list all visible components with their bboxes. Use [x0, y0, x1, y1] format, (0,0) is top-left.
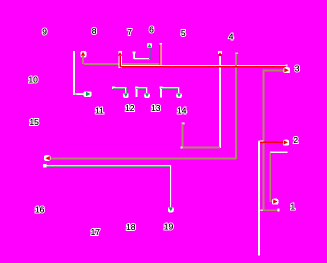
shape Q: staple with green down-arrow (12) [135, 87, 137, 97]
node arrow A1: red up-arrow at x83 on white pad [81, 51, 87, 64]
svg-text:18: 18 [126, 222, 136, 232]
wire O: white/green vertical with green down-arrow [170, 166, 171, 209]
shape P: elbow with green down-arrow (11→) [112, 87, 115, 90]
net B: red horizontal bus (long) [120, 66, 286, 67]
svg-text:1: 1 [290, 202, 295, 212]
svg-text:5: 5 [181, 28, 186, 38]
svg-text:14: 14 [177, 105, 187, 115]
node arrow E1: red up-arrow on white band at x120 [118, 51, 122, 68]
wire L: tan vertical at x236 [235, 53, 237, 159]
wire K: white vertical at x220 with red up-arrow [218, 51, 222, 56]
svg-text:3: 3 [295, 63, 300, 73]
wire T3: tan vertical right rail [262, 69, 264, 210]
net T2: tan horizontal top-right with red right-arrow (→3) [263, 69, 284, 71]
svg-text:10: 10 [28, 74, 38, 84]
wire T8: tan vertical with red right-arrow (→1) [269, 153, 271, 202]
net T6: red horizontal with right-arrow (→2) [259, 141, 264, 142]
svg-text:4: 4 [229, 31, 234, 41]
wire T4: tan horizontal foot near 1 [262, 209, 278, 211]
svg-text:16: 16 [35, 204, 45, 214]
svg-text:2: 2 [293, 135, 298, 145]
svg-text:9: 9 [42, 27, 47, 37]
svg-text:6: 6 [149, 25, 154, 35]
stub F: white tick at x134 [133, 52, 135, 59]
wire I: red/white vertical pair at x160 [159, 44, 160, 67]
svg-text:17: 17 [91, 227, 101, 237]
svg-text:19: 19 [164, 222, 174, 232]
shape R: staple with green down-arrow (13) [160, 87, 162, 98]
net M: tan horizontal (long, lower) with red left-arrow [47, 158, 236, 160]
net J: white horizontal bus (long) [121, 65, 287, 66]
svg-text:13: 13 [151, 103, 161, 113]
wire T7: white horizontal mid-right [270, 152, 287, 154]
arrow H: green vertical with up arrowhead [149, 47, 151, 59]
wire T5: white vertical going to bottom edge [258, 141, 260, 256]
wire S: tan L below 14 [181, 122, 184, 124]
svg-text:7: 7 [127, 27, 132, 37]
svg-text:11: 11 [95, 105, 104, 115]
wire W1: white vertical left rail [73, 51, 75, 94]
net N: white/green horizontal (long, lower) [44, 165, 171, 166]
wire G: white/green horizontal to green up-arrow [134, 58, 150, 59]
net A: tan horizontal bus segment (left) [84, 63, 160, 65]
svg-text:12: 12 [125, 103, 135, 113]
svg-text:8: 8 [92, 26, 97, 36]
svg-text:15: 15 [29, 117, 39, 127]
wire W1 foot: white horizontal with green right-arrow [73, 93, 87, 95]
